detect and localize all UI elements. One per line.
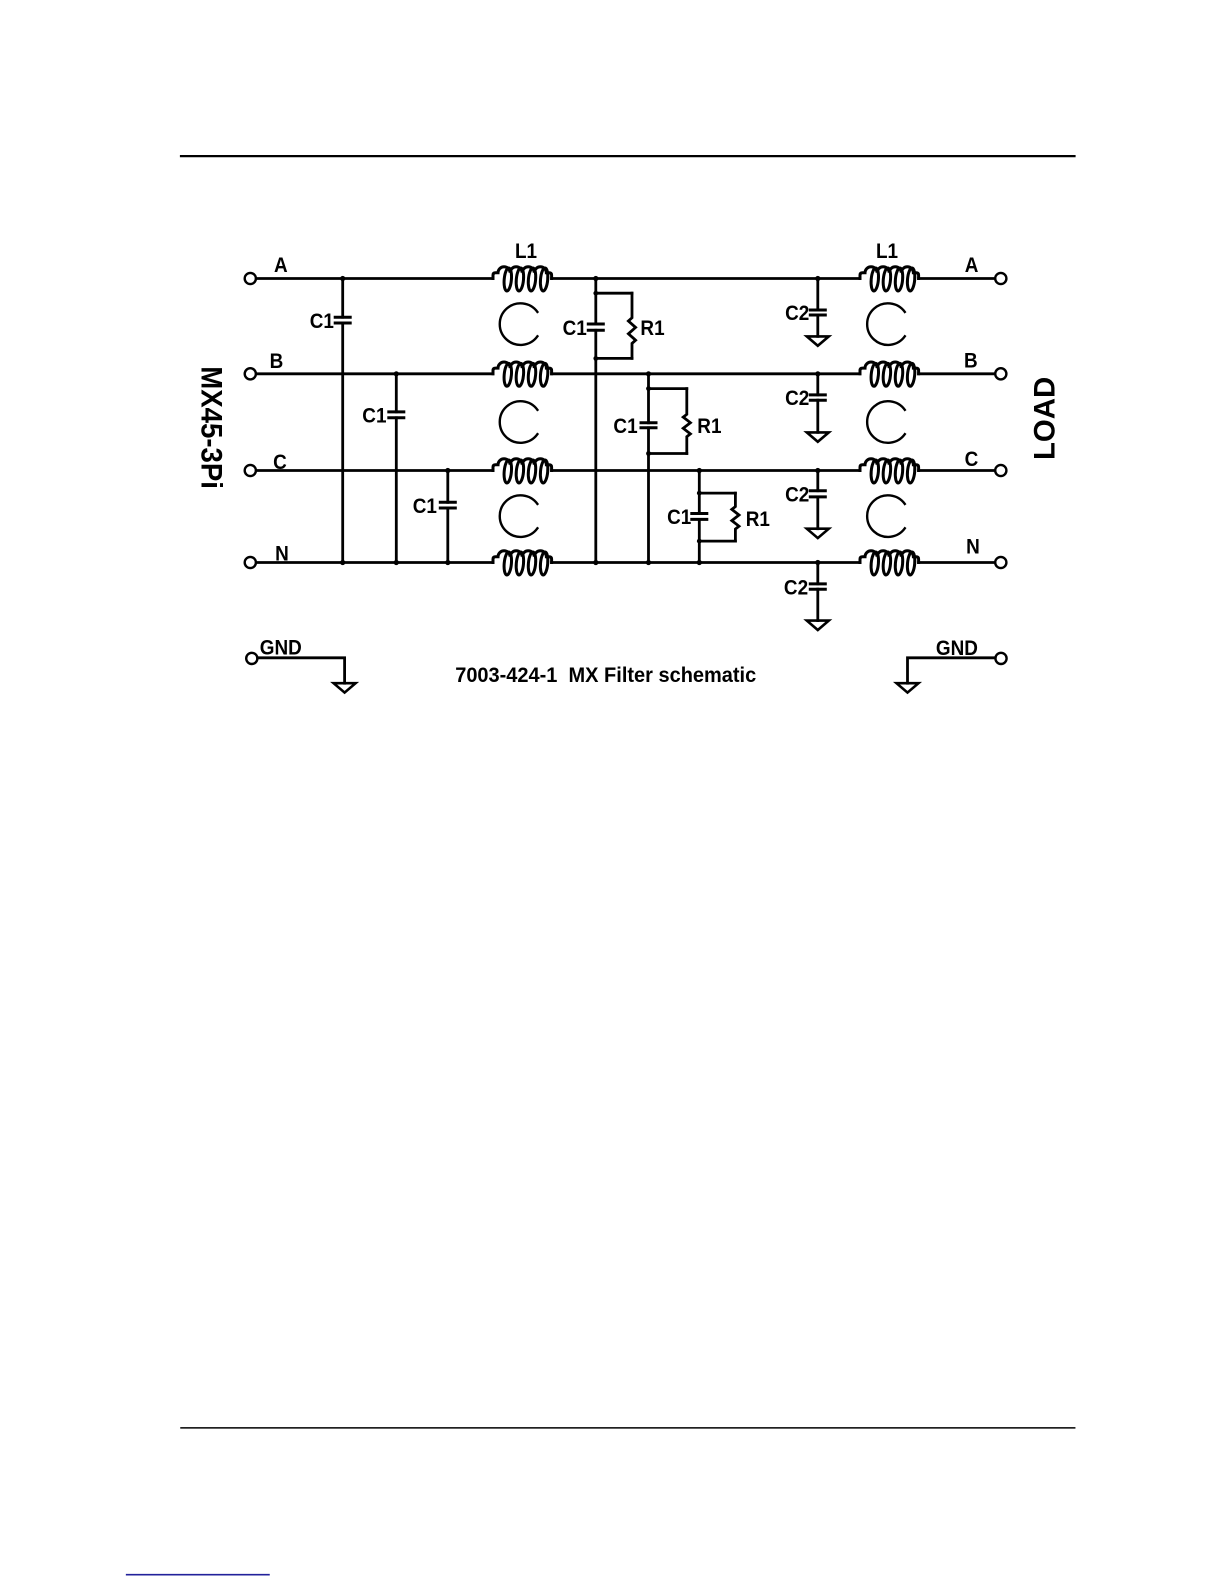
- node dot (648.5,562.5): [646, 560, 651, 565]
- terminal A (load side): [995, 273, 1006, 284]
- wire vertical B-N middle: [647, 374, 650, 563]
- node dot RC (699.3,493.1): [697, 491, 702, 496]
- wire GND line side: [258, 658, 345, 683]
- inductor L1 bank 2 row B: [860, 362, 919, 387]
- svg-text:C1: C1: [362, 404, 386, 427]
- svg-text:A: A: [965, 254, 979, 277]
- ground symbol GND line side: [334, 683, 356, 692]
- capacitor C2 row B: [810, 395, 825, 400]
- node dot RC (595.8,358.4): [593, 356, 598, 361]
- core circle bank 2 A-B: [867, 303, 905, 345]
- capacitor C1 mid phase B: [641, 423, 656, 428]
- wire vertical A-N middle: [594, 279, 597, 563]
- wire row C output: [919, 469, 995, 472]
- bottom rule: [181, 1427, 1075, 1429]
- capacitor C2 branch row B wire: [816, 374, 819, 433]
- node dot (447.8,562.5): [445, 560, 450, 565]
- svg-text:A: A: [274, 254, 288, 277]
- wire row C middle: [552, 469, 860, 472]
- wire row N output: [919, 561, 995, 564]
- capacitor C2 branch row A wire: [816, 279, 819, 337]
- svg-text:B: B: [964, 349, 978, 372]
- svg-text:B: B: [270, 350, 284, 373]
- capacitor C2 row A: [810, 310, 825, 315]
- svg-text:C1: C1: [667, 506, 691, 529]
- node dot (699.3,470.5): [697, 468, 702, 473]
- core circle bank 1 C-N: [500, 495, 538, 537]
- node dot (396.3,373.8): [394, 371, 399, 376]
- RC network phase C top bar: [699, 492, 735, 495]
- svg-text:C1: C1: [613, 415, 637, 438]
- svg-text:C1: C1: [413, 495, 437, 518]
- node dot (699.3,562.5): [697, 560, 702, 565]
- wire row A output: [919, 277, 995, 280]
- capacitor C2 row C: [810, 491, 825, 497]
- ground symbol row B: [807, 432, 829, 441]
- RC network phase B top bar: [649, 387, 687, 390]
- ground symbol row N: [807, 621, 829, 630]
- node dot (342.7,278.5): [340, 276, 345, 281]
- svg-text:C: C: [965, 448, 979, 471]
- RC network phase B bottom bar: [649, 452, 687, 455]
- terminal N (load side): [995, 557, 1006, 568]
- node dot (595.8,562.5): [593, 560, 598, 565]
- svg-text:R1: R1: [640, 317, 664, 340]
- terminal B (load side): [995, 368, 1006, 379]
- inductor L1 bank 1 row A: [493, 267, 552, 292]
- node dot RC (648.5,453.5): [646, 451, 651, 456]
- inductor L1 bank 2 row A: [860, 267, 919, 292]
- ground symbol GND load side: [897, 683, 919, 692]
- wire row A middle: [552, 277, 860, 280]
- svg-text:C2: C2: [785, 302, 809, 325]
- svg-text:C2: C2: [785, 483, 809, 506]
- capacitor C2 branch row C wire: [816, 471, 819, 529]
- node dot RC (595.8,293.2): [593, 291, 598, 296]
- core circle bank 2 B-C: [867, 401, 905, 443]
- inductor L1 bank 2 row N: [860, 551, 919, 576]
- inductor L1 bank 1 row C: [493, 459, 552, 484]
- svg-text:L1: L1: [876, 240, 898, 263]
- capacitor C1 input phase C: [440, 502, 455, 508]
- node dot (342.7,562.5): [340, 560, 345, 565]
- wire GND load side: [908, 658, 996, 683]
- capacitor C2 row N: [810, 584, 825, 589]
- inductor L1 bank 1 row B: [493, 362, 552, 387]
- terminal A (line side): [245, 273, 256, 284]
- capacitor C1 mid phase C: [692, 514, 707, 520]
- ground symbol row C: [807, 529, 829, 538]
- svg-text:GND: GND: [260, 636, 302, 659]
- svg-text:R1: R1: [746, 508, 770, 531]
- svg-text:7003-424-1 MX Filter schemati: 7003-424-1 MX Filter schematic: [455, 663, 756, 687]
- wire vertical A-N input: [341, 279, 344, 563]
- svg-text:C1: C1: [563, 317, 587, 340]
- core circle bank 1 B-C: [500, 401, 538, 443]
- terminal GND (line side): [246, 653, 257, 664]
- svg-text:MX45-3Pi: MX45-3Pi: [194, 366, 227, 489]
- top rule: [181, 155, 1075, 157]
- node dot (396.3,562.5): [394, 560, 399, 565]
- wire row B input: [256, 372, 493, 375]
- terminal N (line side): [245, 557, 256, 568]
- wire row B middle: [552, 372, 860, 375]
- node dot (817.8,470.5): [815, 468, 820, 473]
- svg-text:C1: C1: [310, 310, 334, 333]
- node dot (817.8,562.5): [815, 560, 820, 565]
- svg-text:L1: L1: [515, 240, 537, 263]
- wire vertical C-N middle: [698, 471, 701, 563]
- wire row N input: [256, 561, 493, 564]
- terminal C (load side): [995, 465, 1006, 476]
- RC network phase A top bar: [596, 292, 632, 295]
- terminal B (line side): [245, 368, 256, 379]
- svg-text:C2: C2: [784, 576, 808, 599]
- capacitor C2 branch row N wire: [816, 563, 819, 621]
- terminal GND (load side): [995, 653, 1006, 664]
- node dot (595.8,278.5): [593, 276, 598, 281]
- resistor R1 phase B: [683, 389, 690, 454]
- inductor L1 bank 2 row C: [860, 459, 919, 484]
- wire vertical C-N input: [446, 471, 449, 563]
- capacitor C1 mid phase A: [588, 324, 603, 330]
- capacitor C1 input phase A: [335, 317, 350, 323]
- node dot (817.8,278.5): [815, 276, 820, 281]
- svg-text:C2: C2: [785, 387, 809, 410]
- node dot (447.8,470.5): [445, 468, 450, 473]
- RC network phase C bottom bar: [699, 540, 735, 543]
- ground symbol row A: [807, 336, 829, 345]
- RC network phase A bottom bar: [596, 357, 632, 360]
- svg-text:LOAD: LOAD: [1028, 377, 1061, 460]
- terminal C (line side): [245, 465, 256, 476]
- footer link underline (blue): [127, 1574, 269, 1576]
- capacitor C1 input phase B: [389, 412, 404, 418]
- node dot RC (699.3,541.1): [697, 539, 702, 544]
- node dot (648.5,373.8): [646, 371, 651, 376]
- core circle bank 1 A-B: [500, 303, 538, 345]
- wire row A input: [256, 277, 493, 280]
- node dot RC (648.5,388.6): [646, 386, 651, 391]
- node dot (817.8,373.8): [815, 371, 820, 376]
- resistor R1 phase A: [628, 293, 635, 358]
- wire row B output: [919, 372, 995, 375]
- svg-text:N: N: [966, 536, 980, 559]
- wire vertical B-N input: [395, 374, 398, 563]
- inductor L1 bank 1 row N: [493, 551, 552, 576]
- core circle bank 2 C-N: [867, 495, 905, 537]
- svg-text:R1: R1: [697, 415, 721, 438]
- wire row C input: [256, 469, 493, 472]
- resistor R1 phase C: [732, 493, 739, 541]
- wire row N middle: [552, 561, 860, 564]
